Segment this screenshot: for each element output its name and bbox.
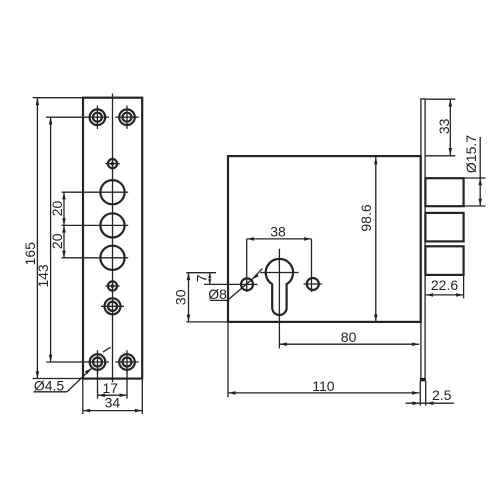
svg-text:80: 80 bbox=[341, 329, 357, 345]
svg-text:Ø15.7: Ø15.7 bbox=[463, 135, 479, 173]
svg-text:33: 33 bbox=[436, 118, 452, 134]
svg-text:30: 30 bbox=[173, 289, 189, 305]
svg-text:165: 165 bbox=[22, 242, 38, 266]
svg-text:143: 143 bbox=[35, 264, 51, 288]
svg-text:7: 7 bbox=[194, 274, 210, 282]
svg-text:2.5: 2.5 bbox=[432, 387, 452, 403]
svg-text:110: 110 bbox=[312, 378, 335, 394]
svg-text:38: 38 bbox=[270, 224, 286, 240]
svg-text:20: 20 bbox=[49, 233, 65, 249]
svg-text:34: 34 bbox=[105, 394, 121, 410]
svg-text:20: 20 bbox=[49, 201, 65, 217]
svg-text:22.6: 22.6 bbox=[431, 277, 458, 293]
svg-text:98.6: 98.6 bbox=[358, 204, 374, 231]
